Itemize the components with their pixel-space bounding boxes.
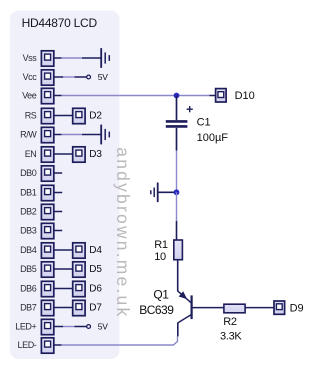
svg-text:DB5: DB5	[20, 264, 37, 274]
svg-text:DB4: DB4	[20, 245, 37, 255]
svg-text:Vss: Vss	[23, 53, 38, 63]
svg-text:R/W: R/W	[20, 130, 37, 140]
svg-text:D10: D10	[235, 90, 255, 102]
svg-text:DB7: DB7	[20, 303, 37, 313]
svg-text:D3: D3	[89, 149, 102, 160]
svg-text:DB1: DB1	[20, 188, 37, 198]
svg-text:R2: R2	[223, 316, 237, 328]
svg-text:Vee: Vee	[22, 91, 37, 101]
svg-text:HD44870 LCD: HD44870 LCD	[22, 16, 98, 30]
svg-text:D7: D7	[89, 303, 102, 314]
svg-text:C1: C1	[197, 117, 211, 129]
svg-text:D6: D6	[89, 284, 102, 295]
svg-text:R1: R1	[154, 239, 168, 251]
svg-text:D2: D2	[89, 111, 102, 122]
svg-text:DB6: DB6	[20, 284, 37, 294]
svg-text:EN: EN	[25, 149, 37, 159]
svg-text:Vcc: Vcc	[23, 72, 38, 82]
svg-text:3.3K: 3.3K	[220, 330, 242, 342]
svg-text:D4: D4	[89, 245, 102, 256]
svg-text:5V: 5V	[98, 72, 108, 82]
svg-text:Q1: Q1	[153, 288, 169, 302]
svg-text:DB3: DB3	[20, 226, 37, 236]
svg-text:DB2: DB2	[20, 207, 37, 217]
svg-text:D9: D9	[290, 303, 304, 315]
svg-text:LED-: LED-	[17, 340, 36, 350]
svg-text:RS: RS	[25, 111, 37, 121]
svg-text:5V: 5V	[98, 322, 108, 332]
svg-text:LED+: LED+	[15, 322, 36, 332]
svg-text:DB0: DB0	[20, 168, 37, 178]
svg-text:10: 10	[154, 251, 166, 263]
svg-text:andybrown.me.uk: andybrown.me.uk	[113, 147, 133, 318]
svg-text:100µF: 100µF	[197, 132, 229, 144]
svg-text:BC639: BC639	[139, 303, 174, 317]
svg-text:D5: D5	[89, 264, 102, 275]
